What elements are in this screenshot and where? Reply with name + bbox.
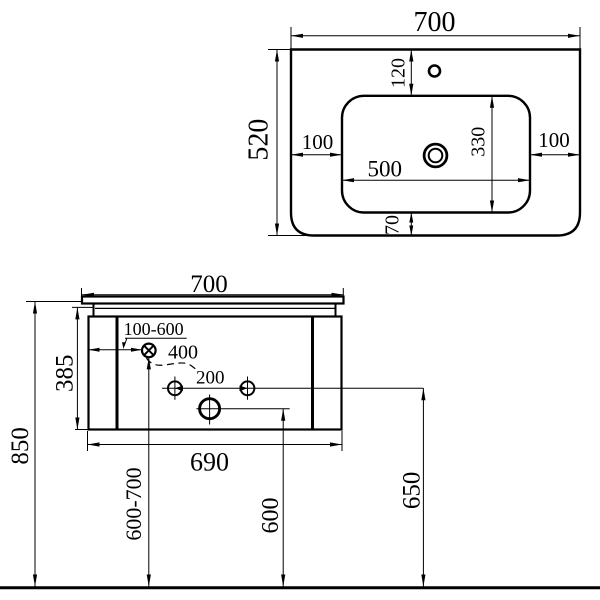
svg-text:600: 600 xyxy=(258,498,284,534)
svg-text:100: 100 xyxy=(302,130,334,154)
svg-text:700: 700 xyxy=(414,7,456,38)
svg-text:100: 100 xyxy=(538,128,570,152)
svg-text:385: 385 xyxy=(52,355,79,393)
svg-text:520: 520 xyxy=(244,119,275,161)
svg-text:850: 850 xyxy=(7,427,34,465)
svg-text:330: 330 xyxy=(468,127,490,157)
svg-text:700: 700 xyxy=(190,271,228,298)
svg-text:650: 650 xyxy=(399,472,426,510)
svg-text:120: 120 xyxy=(388,58,410,88)
svg-text:70: 70 xyxy=(382,215,404,235)
svg-text:200: 200 xyxy=(196,367,225,388)
svg-text:690: 690 xyxy=(190,448,229,477)
svg-text:500: 500 xyxy=(368,157,403,182)
svg-text:600-700: 600-700 xyxy=(121,467,146,540)
svg-text:100-600: 100-600 xyxy=(124,319,184,339)
svg-text:400: 400 xyxy=(168,342,198,364)
